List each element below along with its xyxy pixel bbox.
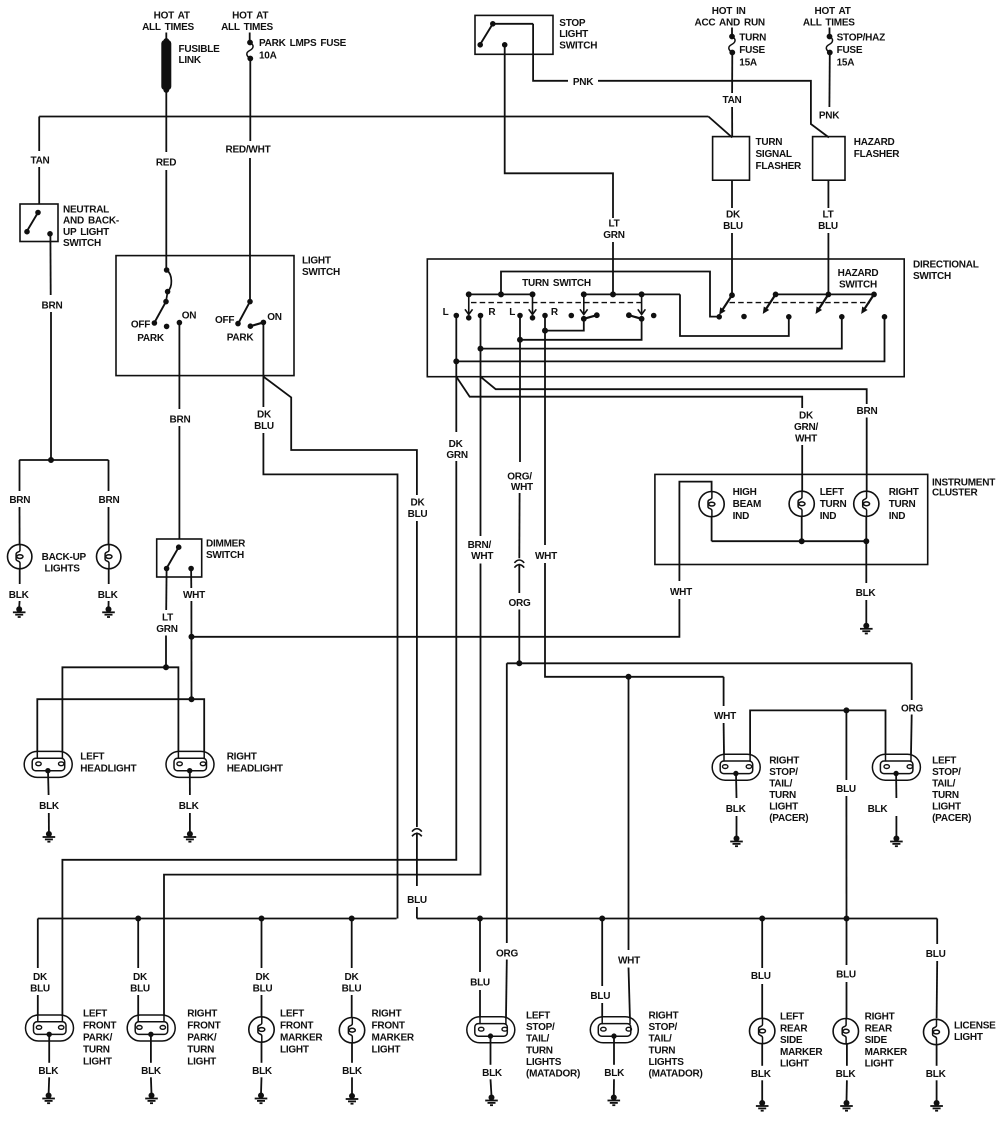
svg-text:NEUTRAL: NEUTRAL <box>63 204 109 215</box>
svg-text:DK: DK <box>256 972 271 983</box>
svg-text:LT: LT <box>823 210 834 221</box>
svg-text:STOP/: STOP/ <box>526 1022 555 1033</box>
svg-text:REAR: REAR <box>780 1023 808 1034</box>
svg-text:RIGHT: RIGHT <box>372 1009 402 1020</box>
svg-text:TAIL/: TAIL/ <box>932 779 955 790</box>
svg-text:(PACER): (PACER) <box>769 813 808 824</box>
svg-text:BLK: BLK <box>98 590 119 601</box>
svg-text:BLU: BLU <box>408 509 428 520</box>
svg-text:REAR: REAR <box>865 1023 893 1034</box>
svg-text:RIGHT: RIGHT <box>865 1012 895 1023</box>
svg-text:FRONT: FRONT <box>83 1021 116 1032</box>
svg-text:PARK: PARK <box>227 333 255 344</box>
svg-text:HAZARD: HAZARD <box>838 268 879 279</box>
svg-text:HIGH: HIGH <box>733 487 757 498</box>
svg-text:LEFT: LEFT <box>83 1009 107 1020</box>
svg-text:LEFT: LEFT <box>780 1012 804 1023</box>
svg-text:BLU: BLU <box>836 784 856 795</box>
svg-text:PARK/: PARK/ <box>83 1033 113 1044</box>
svg-text:LEFT: LEFT <box>526 1010 550 1021</box>
svg-text:DK: DK <box>257 410 272 421</box>
svg-text:MARKER: MARKER <box>372 1033 415 1044</box>
svg-text:SWITCH: SWITCH <box>206 550 244 561</box>
svg-text:UP LIGHT: UP LIGHT <box>63 227 109 238</box>
svg-text:BLK: BLK <box>9 590 30 601</box>
svg-text:OFF: OFF <box>131 320 150 331</box>
svg-text:SWITCH: SWITCH <box>302 267 340 278</box>
svg-text:BLU: BLU <box>253 983 273 994</box>
svg-text:MARKER: MARKER <box>865 1047 908 1058</box>
svg-text:ORG: ORG <box>508 598 531 609</box>
svg-text:DK: DK <box>345 972 360 983</box>
svg-text:WHT: WHT <box>511 482 533 493</box>
svg-text:ORG: ORG <box>496 948 519 959</box>
svg-text:BLU: BLU <box>407 895 427 906</box>
svg-text:DK: DK <box>33 972 48 983</box>
svg-text:RED: RED <box>156 158 176 169</box>
svg-text:LIGHT: LIGHT <box>83 1057 112 1068</box>
svg-text:BRN/: BRN/ <box>468 540 492 551</box>
svg-text:RIGHT: RIGHT <box>187 1009 217 1020</box>
svg-text:R: R <box>551 307 559 318</box>
svg-text:BLK: BLK <box>926 1069 947 1080</box>
svg-text:BLK: BLK <box>604 1068 625 1079</box>
svg-text:SIDE: SIDE <box>780 1035 803 1046</box>
svg-text:MARKER: MARKER <box>280 1033 323 1044</box>
svg-text:PNK: PNK <box>819 110 840 121</box>
svg-text:SWITCH: SWITCH <box>913 271 951 282</box>
svg-text:DIMMER: DIMMER <box>206 539 246 550</box>
svg-text:INSTRUMENT: INSTRUMENT <box>932 477 995 488</box>
svg-text:BLU: BLU <box>818 221 838 232</box>
svg-text:LIGHT: LIGHT <box>559 29 588 40</box>
svg-text:SIDE: SIDE <box>865 1035 888 1046</box>
svg-text:PNK: PNK <box>573 77 594 88</box>
svg-text:HOT AT: HOT AT <box>154 11 190 22</box>
svg-text:ALL TIMES: ALL TIMES <box>142 22 194 33</box>
svg-text:BLK: BLK <box>856 588 877 599</box>
svg-text:LEFT: LEFT <box>820 487 844 498</box>
svg-text:RIGHT: RIGHT <box>889 487 919 498</box>
svg-text:SWITCH: SWITCH <box>839 280 877 291</box>
svg-text:LEFT: LEFT <box>280 1009 304 1020</box>
svg-text:LIGHT: LIGHT <box>280 1045 309 1056</box>
svg-text:FUSE: FUSE <box>837 45 863 56</box>
svg-text:LIGHT: LIGHT <box>372 1045 401 1056</box>
svg-text:LICENSE: LICENSE <box>954 1020 996 1031</box>
svg-text:SWITCH: SWITCH <box>63 238 101 249</box>
svg-text:RIGHT: RIGHT <box>769 756 799 767</box>
svg-text:10A: 10A <box>259 51 277 62</box>
svg-text:RIGHT: RIGHT <box>649 1010 679 1021</box>
svg-text:WHT: WHT <box>183 590 205 601</box>
svg-text:GRN/: GRN/ <box>794 422 818 433</box>
svg-text:BLK: BLK <box>836 1069 857 1080</box>
svg-text:BLK: BLK <box>252 1066 273 1077</box>
svg-text:LEFT: LEFT <box>80 752 104 763</box>
svg-text:STOP/: STOP/ <box>932 767 961 778</box>
svg-text:OFF: OFF <box>215 315 234 326</box>
svg-text:STOP/: STOP/ <box>649 1022 678 1033</box>
svg-text:PARK/: PARK/ <box>187 1033 217 1044</box>
svg-text:BLK: BLK <box>726 804 747 815</box>
svg-text:FRONT: FRONT <box>280 1021 313 1032</box>
svg-text:FRONT: FRONT <box>372 1021 405 1032</box>
svg-text:LIGHT: LIGHT <box>187 1057 216 1068</box>
svg-text:BLU: BLU <box>342 983 362 994</box>
svg-text:WHT: WHT <box>714 711 736 722</box>
svg-text:DK: DK <box>133 972 148 983</box>
svg-text:RED/WHT: RED/WHT <box>226 145 271 156</box>
svg-text:TAIL/: TAIL/ <box>769 779 792 790</box>
svg-text:TAIL/: TAIL/ <box>649 1034 672 1045</box>
svg-text:TURN: TURN <box>739 32 766 43</box>
svg-text:BLU: BLU <box>470 978 490 989</box>
svg-text:TURN: TURN <box>187 1045 214 1056</box>
svg-text:CLUSTER: CLUSTER <box>932 488 979 499</box>
svg-text:BLK: BLK <box>179 801 200 812</box>
svg-text:FUSIBLE: FUSIBLE <box>179 44 221 55</box>
svg-text:ACC AND RUN: ACC AND RUN <box>694 17 764 28</box>
svg-text:GRN: GRN <box>446 450 468 461</box>
svg-text:LIGHT: LIGHT <box>780 1059 809 1070</box>
svg-text:DK: DK <box>449 439 464 450</box>
svg-text:STOP: STOP <box>559 18 586 29</box>
svg-text:DIRECTIONAL: DIRECTIONAL <box>913 260 979 271</box>
svg-text:BLU: BLU <box>723 221 743 232</box>
svg-text:TURN: TURN <box>649 1045 676 1056</box>
svg-text:BLU: BLU <box>30 983 50 994</box>
svg-text:LIGHTS: LIGHTS <box>649 1057 685 1068</box>
svg-text:LEFT: LEFT <box>932 756 956 767</box>
svg-text:BLU: BLU <box>254 421 274 432</box>
svg-text:HOT IN: HOT IN <box>712 6 746 17</box>
svg-text:TURN: TURN <box>769 790 796 801</box>
svg-text:TURN: TURN <box>820 499 847 510</box>
svg-text:FRONT: FRONT <box>187 1021 220 1032</box>
svg-text:BLU: BLU <box>751 971 771 982</box>
svg-text:TURN SWITCH: TURN SWITCH <box>522 278 591 289</box>
svg-text:ORG/: ORG/ <box>507 471 532 482</box>
svg-text:BRN: BRN <box>170 414 191 425</box>
svg-text:STOP/HAZ: STOP/HAZ <box>837 32 886 43</box>
svg-text:(MATADOR): (MATADOR) <box>649 1069 703 1080</box>
svg-text:TURN: TURN <box>889 499 916 510</box>
svg-text:SWITCH: SWITCH <box>559 40 597 51</box>
svg-text:L: L <box>509 307 515 318</box>
svg-text:IND: IND <box>889 511 906 522</box>
svg-text:TAN: TAN <box>30 155 49 166</box>
svg-text:R: R <box>488 307 496 318</box>
svg-text:ALL TIMES: ALL TIMES <box>803 17 855 28</box>
svg-text:FLASHER: FLASHER <box>854 149 901 160</box>
svg-text:BLK: BLK <box>342 1066 363 1077</box>
svg-text:BLK: BLK <box>751 1069 772 1080</box>
svg-text:LIGHTS: LIGHTS <box>45 563 81 574</box>
svg-text:IND: IND <box>733 511 750 522</box>
svg-text:BLK: BLK <box>39 801 60 812</box>
svg-text:STOP/: STOP/ <box>769 767 798 778</box>
svg-text:FLASHER: FLASHER <box>756 161 803 172</box>
svg-text:RIGHT: RIGHT <box>227 752 257 763</box>
svg-text:BRN: BRN <box>857 406 878 417</box>
svg-text:BLU: BLU <box>836 969 856 980</box>
svg-text:LT: LT <box>162 612 173 623</box>
svg-text:HOT AT: HOT AT <box>232 11 268 22</box>
svg-text:HEADLIGHT: HEADLIGHT <box>227 764 283 775</box>
svg-text:MARKER: MARKER <box>780 1047 823 1058</box>
svg-text:LIGHT: LIGHT <box>302 256 331 267</box>
svg-text:ALL TIMES: ALL TIMES <box>221 22 273 33</box>
svg-text:GRN: GRN <box>156 624 178 635</box>
svg-text:HAZARD: HAZARD <box>854 137 895 148</box>
svg-text:(MATADOR): (MATADOR) <box>526 1069 580 1080</box>
svg-text:LIGHT: LIGHT <box>954 1032 983 1043</box>
svg-text:PARK LMPS FUSE: PARK LMPS FUSE <box>259 38 347 49</box>
svg-text:(PACER): (PACER) <box>932 813 971 824</box>
svg-text:LINK: LINK <box>179 55 202 66</box>
svg-text:WHT: WHT <box>471 551 493 562</box>
svg-text:BRN: BRN <box>42 301 63 312</box>
svg-text:WHT: WHT <box>795 434 817 445</box>
svg-text:BLU: BLU <box>130 983 150 994</box>
svg-text:SIGNAL: SIGNAL <box>756 149 792 160</box>
svg-text:BLK: BLK <box>141 1066 162 1077</box>
svg-text:LIGHT: LIGHT <box>932 802 961 813</box>
svg-text:TAIL/: TAIL/ <box>526 1034 549 1045</box>
svg-text:TAN: TAN <box>722 95 741 106</box>
svg-text:BLU: BLU <box>926 949 946 960</box>
svg-text:TURN: TURN <box>83 1045 110 1056</box>
svg-text:BRN: BRN <box>9 495 30 506</box>
svg-text:PARK: PARK <box>137 333 165 344</box>
svg-text:WHT: WHT <box>618 955 640 966</box>
svg-text:TURN: TURN <box>932 790 959 801</box>
svg-text:BEAM: BEAM <box>733 499 761 510</box>
svg-text:ON: ON <box>267 312 282 323</box>
svg-text:ORG: ORG <box>901 703 924 714</box>
svg-text:LT: LT <box>609 219 620 230</box>
svg-text:BACK-UP: BACK-UP <box>42 552 87 563</box>
svg-text:FUSE: FUSE <box>739 45 765 56</box>
svg-text:AND BACK-: AND BACK- <box>63 216 119 227</box>
svg-text:BLK: BLK <box>482 1068 503 1079</box>
svg-text:LIGHTS: LIGHTS <box>526 1057 562 1068</box>
svg-text:HEADLIGHT: HEADLIGHT <box>80 764 136 775</box>
svg-text:IND: IND <box>820 511 837 522</box>
svg-text:DK: DK <box>411 498 426 509</box>
svg-text:LIGHT: LIGHT <box>865 1059 894 1070</box>
svg-text:WHT: WHT <box>535 551 557 562</box>
svg-text:15A: 15A <box>739 58 757 69</box>
svg-text:LIGHT: LIGHT <box>769 802 798 813</box>
svg-text:TURN: TURN <box>756 137 783 148</box>
svg-text:GRN: GRN <box>603 230 625 241</box>
svg-text:TURN: TURN <box>526 1045 553 1056</box>
svg-text:WHT: WHT <box>670 587 692 598</box>
svg-text:DK: DK <box>726 210 741 221</box>
svg-text:DK: DK <box>799 411 814 422</box>
svg-text:BLK: BLK <box>38 1066 59 1077</box>
svg-text:15A: 15A <box>837 58 855 69</box>
svg-text:BRN: BRN <box>99 495 120 506</box>
svg-text:L: L <box>443 307 449 318</box>
svg-text:BLU: BLU <box>590 991 610 1002</box>
svg-text:HOT AT: HOT AT <box>815 6 851 17</box>
svg-text:BLK: BLK <box>868 804 889 815</box>
svg-text:ON: ON <box>182 311 197 322</box>
